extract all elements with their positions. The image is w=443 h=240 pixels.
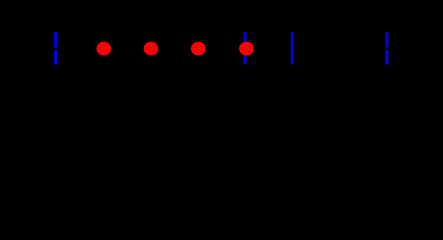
red dot D3 <box>191 42 206 56</box>
blue dashed vertical line L4 <box>385 32 388 64</box>
red dot D1 <box>97 42 112 56</box>
red dot D4 (on line L2) <box>239 42 254 56</box>
red dot D2 <box>144 42 159 56</box>
blue dashed vertical line L2 (under red dot D4) <box>244 32 247 64</box>
blue dashed vertical line L1 <box>54 32 57 64</box>
blue solid vertical line L3 <box>291 32 294 64</box>
